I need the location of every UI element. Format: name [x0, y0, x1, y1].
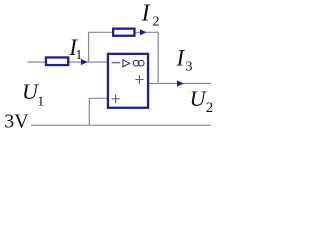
svg-text:I: I	[176, 45, 186, 70]
svg-text:3: 3	[186, 60, 193, 75]
svg-text:2: 2	[206, 100, 214, 116]
svg-text:2: 2	[153, 15, 160, 30]
svg-text:1: 1	[37, 94, 44, 109]
svg-text:3V: 3V	[4, 111, 29, 133]
svg-text:I: I	[141, 0, 151, 26]
svg-text:1: 1	[75, 48, 82, 63]
